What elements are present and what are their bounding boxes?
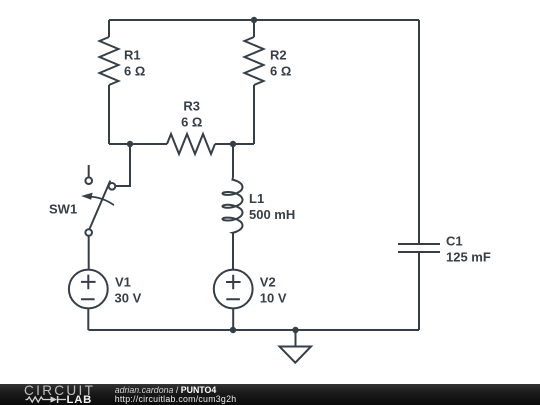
svg-text:R3: R3 (183, 99, 200, 114)
svg-text:6 Ω: 6 Ω (270, 63, 291, 78)
svg-text:10 V: 10 V (260, 291, 287, 306)
svg-text:6 Ω: 6 Ω (124, 63, 145, 78)
svg-text:V2: V2 (260, 275, 276, 290)
svg-text:125 mF: 125 mF (446, 249, 491, 264)
svg-text:SW1: SW1 (49, 201, 77, 216)
svg-text:V1: V1 (115, 275, 131, 290)
svg-text:6 Ω: 6 Ω (181, 114, 202, 129)
svg-text:C1: C1 (446, 234, 463, 249)
svg-text:R2: R2 (270, 48, 287, 63)
svg-text:500 mH: 500 mH (249, 207, 295, 222)
svg-text:R1: R1 (124, 48, 141, 63)
svg-text:30 V: 30 V (115, 291, 142, 306)
svg-text:L1: L1 (249, 191, 264, 206)
